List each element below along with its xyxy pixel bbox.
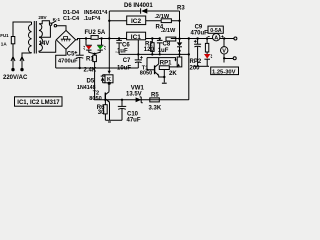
diode D7 to ADJ: [177, 42, 183, 46]
svg-text:R5: R5: [151, 93, 159, 99]
svg-text:13.5V: 13.5V: [126, 92, 142, 98]
wire 28V tap to switch: [39, 21, 49, 24]
transistor T2: [105, 82, 111, 122]
capacitor C10: [118, 100, 126, 120]
IC2: [127, 16, 146, 25]
zener VW1: [136, 97, 143, 103]
transformer core: [34, 21, 36, 54]
resistor R2: [151, 39, 155, 55]
svg-text:10uF: 10uF: [117, 65, 131, 71]
svg-text:FU2: FU2: [85, 30, 97, 36]
node D6/IC2 input: [108, 20, 110, 22]
label box IC1, IC2 LM317: [15, 97, 63, 106]
output column: [179, 11, 181, 54]
ammeter box 0-5A: [208, 26, 223, 33]
svg-text:RP1: RP1: [160, 60, 172, 66]
svg-text:220V/AC: 220V/AC: [3, 75, 28, 81]
node pre-fuse: [85, 37, 87, 39]
label box 1.25-30V: [211, 67, 239, 75]
ammeter A: [215, 32, 217, 35]
svg-text:470uF: 470uF: [191, 30, 209, 36]
svg-text:.1uF: .1uF: [115, 48, 128, 54]
wire bottom tap to bridge left: [39, 40, 56, 52]
diode D5: [101, 75, 105, 83]
svg-text:R1: R1: [86, 57, 94, 63]
svg-text:1uF: 1uF: [158, 48, 169, 54]
svg-text:3.3K: 3.3K: [149, 106, 162, 112]
main positive rail: [76, 39, 234, 40]
IC1: [127, 32, 146, 40]
T2 base line to zener and R5: [105, 99, 189, 101]
output terminal plus: [234, 37, 237, 40]
svg-text:120: 120: [144, 47, 155, 53]
svg-text:14V: 14V: [39, 41, 50, 47]
LED1 red: [84, 39, 95, 54]
svg-text:4700uF: 4700uF: [58, 59, 78, 65]
svg-text:C8: C8: [163, 42, 171, 48]
node post-fuse: [100, 37, 102, 39]
voltmeter V: [221, 39, 234, 63]
gnd link wire: [105, 119, 122, 121]
resistor R4: [166, 37, 176, 41]
ADJ line: [119, 53, 189, 55]
svg-text:0-5A: 0-5A: [210, 28, 222, 34]
wire R1 to T2 base: [95, 98, 106, 100]
capacitor C9: [194, 39, 201, 67]
resistor R1: [93, 54, 97, 98]
transformer T primary winding: [28, 22, 31, 53]
capacitor C7: [135, 54, 143, 68]
svg-text:C7: C7: [123, 58, 131, 64]
svg-text:D6 IN4001: D6 IN4001: [124, 3, 153, 9]
fuse FU2: [91, 36, 98, 40]
wire switch common to bridge top: [57, 26, 66, 31]
LED3 red power indicator: [204, 54, 212, 66]
svg-text:.2/1W: .2/1W: [161, 28, 176, 34]
wire right prong to primary bottom: [22, 53, 32, 57]
svg-text:1.25-30V: 1.25-30V: [212, 69, 236, 75]
capacitor C6: [116, 39, 122, 55]
svg-text:8050: 8050: [140, 71, 152, 77]
svg-text:28V: 28V: [38, 15, 47, 20]
AC plug prongs: [11, 57, 24, 71]
LED2 green: [95, 39, 106, 54]
node rail at column: [108, 37, 110, 39]
node LED common: [93, 53, 95, 55]
svg-text:IC1: IC1: [131, 34, 142, 41]
node C10 top: [121, 99, 123, 101]
svg-text:.1uF*4: .1uF*4: [84, 16, 102, 22]
svg-text:D5: D5: [87, 79, 95, 85]
svg-text:RP2: RP2: [190, 59, 202, 65]
bridge rectifier D1-D4: [56, 30, 75, 49]
potentiometer RP1: [159, 66, 178, 83]
svg-text:47uF: 47uF: [127, 117, 141, 123]
resistor R3: [161, 19, 171, 23]
svg-text:R3: R3: [177, 6, 185, 12]
svg-text:K-1: K-1: [53, 17, 61, 22]
svg-text:30: 30: [98, 110, 105, 116]
capacitor C8: [157, 39, 163, 55]
svg-text:.2/1W: .2/1W: [155, 14, 170, 20]
svg-text:1A: 1A: [1, 41, 8, 46]
svg-text:IC2: IC2: [131, 18, 142, 25]
IC1 adj pin: [137, 40, 139, 55]
switch K-1: [49, 21, 56, 27]
diode D6: [141, 8, 148, 13]
fuse FU1: [11, 22, 31, 57]
svg-text:5A: 5A: [98, 30, 106, 36]
svg-text:2.4K: 2.4K: [84, 68, 97, 74]
svg-text:FU1: FU1: [0, 33, 9, 38]
column from D6 line down to relay: [108, 11, 110, 71]
output terminal minus: [233, 57, 236, 60]
relay coil K: [103, 75, 113, 83]
svg-text:C1-C4: C1-C4: [63, 16, 80, 22]
transformer secondary winding: [39, 24, 42, 53]
capacitor C5: [74, 39, 83, 69]
svg-text:8050: 8050: [89, 96, 101, 102]
wire 14V tap riser: [39, 26, 50, 37]
svg-text:2K: 2K: [169, 71, 177, 77]
svg-text:C5: C5: [67, 51, 75, 57]
potentiometer RP2: [177, 54, 182, 67]
wire bridge bottom to gnd rail: [56, 49, 66, 68]
resistor R6: [104, 100, 108, 120]
IC2 input wire: [109, 20, 126, 22]
transistor T1: [155, 58, 165, 77]
resistor R5: [150, 98, 160, 102]
svg-text:A: A: [214, 36, 218, 42]
ground rail: [56, 67, 139, 69]
IC2 output + R3: [146, 20, 180, 22]
resistor R7: [205, 39, 208, 55]
svg-text:V: V: [222, 49, 226, 55]
svg-text:IC1, IC2 LM317: IC1, IC2 LM317: [17, 100, 60, 106]
node C6 top: [118, 37, 120, 39]
wire base line up to collector line: [188, 39, 190, 100]
gnd segment right: [194, 65, 209, 67]
D6 line: [109, 10, 179, 12]
arrow into relay coil: [108, 71, 111, 74]
